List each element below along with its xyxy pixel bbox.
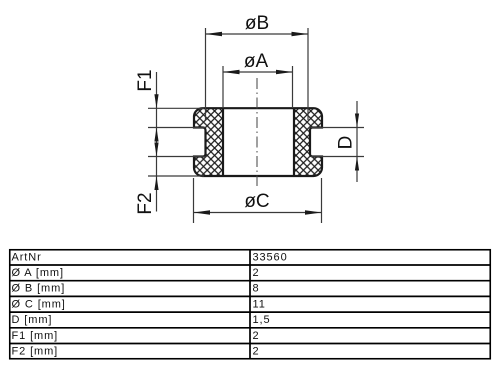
svg-text:D: D (336, 136, 357, 150)
svg-text:øA: øA (244, 51, 269, 72)
dim oC extension right (321, 178, 323, 223)
D extension line bottom (311, 156, 364, 158)
svg-text:øB: øB (245, 13, 269, 34)
D arrow up (355, 157, 359, 171)
D extension line top (311, 127, 364, 129)
svg-text:F2 [mm]: F2 [mm] (12, 345, 59, 357)
table row separator 1 (10, 264, 490, 266)
hole wall right (293, 108, 295, 176)
hatch right block (294, 108, 322, 176)
svg-text:F2: F2 (135, 192, 156, 214)
dim oA extension right (292, 66, 294, 108)
table row separator 5 (10, 327, 490, 329)
dim oC arrow right (305, 210, 322, 214)
table row separator 2 (10, 280, 490, 282)
dim oA extension left (222, 66, 224, 108)
F1 arrow up (154, 128, 158, 142)
table row separator 3 (10, 295, 490, 297)
dim oB line (206, 33, 309, 35)
svg-text:1,5: 1,5 (253, 314, 271, 326)
dim oA arrow left (223, 70, 240, 74)
F1 arrow down (154, 94, 158, 108)
D arrow down (355, 114, 359, 128)
dim oA arrow right (276, 70, 293, 74)
dim oC arrow left (194, 210, 211, 214)
svg-text:2: 2 (253, 267, 260, 279)
hatch left block (194, 108, 223, 176)
F2 arrow down (154, 143, 158, 157)
svg-text:11: 11 (253, 298, 266, 310)
svg-text:33560: 33560 (253, 251, 288, 263)
svg-text:Ø B [mm]: Ø B [mm] (12, 283, 66, 295)
svg-text:D [mm]: D [mm] (12, 314, 53, 326)
centerline axis (256, 78, 258, 186)
svg-text:F1 [mm]: F1 [mm] (12, 330, 59, 342)
dim oC extension left (193, 178, 195, 223)
dim oC line (194, 212, 322, 214)
svg-text:8: 8 (253, 283, 260, 295)
dim oB arrow right (292, 32, 309, 36)
D dimension line (356, 101, 358, 182)
F2 arrow up (154, 176, 158, 190)
svg-text:ArtNr: ArtNr (12, 251, 42, 263)
dim oB arrow left (206, 32, 223, 36)
table column divider (249, 250, 251, 359)
dim oB extension left (205, 28, 207, 120)
F extension line top flange top (148, 107, 204, 109)
F extension line groove bottom (148, 156, 206, 158)
svg-text:F1: F1 (135, 69, 156, 91)
svg-text:øC: øC (244, 191, 269, 212)
svg-text:2: 2 (253, 330, 260, 342)
F extension line groove top (148, 127, 206, 129)
spec table frame (10, 250, 491, 359)
hole wall left (222, 108, 224, 176)
F extension line bottom flange bottom (148, 175, 204, 177)
svg-text:Ø A [mm]: Ø A [mm] (12, 267, 64, 279)
dim oB extension right (307, 28, 309, 120)
grommet body outline (194, 108, 322, 176)
dim oA line (223, 71, 293, 73)
table row separator 6 (10, 343, 490, 345)
svg-text:Ø C [mm]: Ø C [mm] (12, 298, 66, 310)
table row separator 4 (10, 311, 490, 313)
F1/F2 dimension line (156, 72, 158, 212)
svg-text:2: 2 (253, 345, 260, 357)
